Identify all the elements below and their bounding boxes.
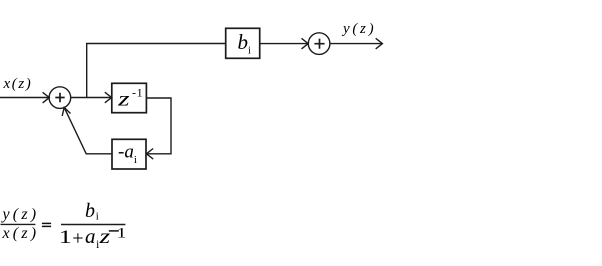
svg-text:1: 1 xyxy=(59,226,72,247)
svg-text:+: + xyxy=(72,228,83,250)
svg-text:-1: -1 xyxy=(132,86,143,100)
svg-text:b: b xyxy=(238,30,249,54)
svg-text:x(z): x(z) xyxy=(2,225,40,242)
svg-text:1: 1 xyxy=(117,224,127,240)
svg-text:z: z xyxy=(117,89,130,111)
svg-text:-a: -a xyxy=(118,141,134,162)
svg-text:i: i xyxy=(134,154,137,166)
svg-text:y(z): y(z) xyxy=(341,21,376,37)
svg-text:a: a xyxy=(85,224,96,248)
svg-text:x(z): x(z) xyxy=(3,76,33,92)
svg-text:i: i xyxy=(248,45,251,56)
svg-text:b: b xyxy=(85,200,95,222)
svg-text:z: z xyxy=(98,226,110,248)
svg-text:y(z): y(z) xyxy=(1,206,40,223)
svg-text:i: i xyxy=(96,211,99,223)
